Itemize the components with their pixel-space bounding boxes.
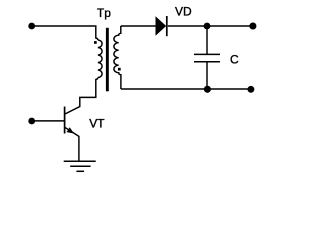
svg-text:Tp: Tp: [97, 6, 111, 20]
svg-text:C: C: [230, 53, 239, 67]
svg-text:VD: VD: [175, 5, 192, 19]
svg-text:VT: VT: [89, 116, 105, 130]
